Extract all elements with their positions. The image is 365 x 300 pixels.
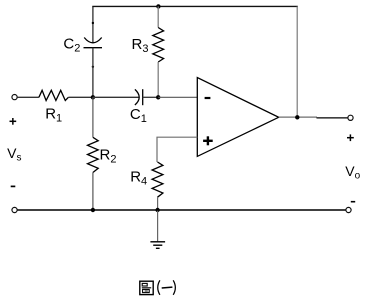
wire C2 bottom lead	[92, 48, 94, 98]
wire C2 top lead	[92, 6, 94, 42]
node junction top of R3	[156, 4, 160, 8]
wire op-amp noninverting input to R4	[157, 137, 197, 162]
node vertex mark on C2 top lead	[92, 22, 94, 24]
node R2 bottom junction dot	[91, 208, 95, 212]
label input minus polarity	[11, 185, 16, 187]
node ground junction dot	[155, 208, 159, 212]
wire bottom rail	[17, 209, 346, 211]
wire R3 top lead	[157, 6, 159, 27]
svg-text:R4: R4	[130, 169, 147, 188]
op-amp U1 minus sign	[205, 97, 211, 99]
svg-text:C2: C2	[63, 36, 80, 55]
node A junction dot	[91, 95, 95, 99]
terminal input minus	[12, 207, 17, 212]
wire node B to op-amp inverting input	[158, 96, 197, 98]
wire R2 top lead	[92, 97, 94, 137]
caption right parenthesis	[173, 280, 175, 295]
ground	[150, 242, 165, 249]
label output minus polarity	[351, 201, 355, 203]
svg-text:R1: R1	[45, 105, 62, 124]
resistor R3	[153, 28, 164, 63]
capacitor C1	[135, 89, 143, 105]
resistor R1	[39, 90, 69, 100]
terminal input plus	[12, 95, 17, 100]
label input plus polarity	[10, 118, 17, 125]
wire feedback right vertical	[296, 6, 298, 117]
caption left parenthesis	[158, 280, 160, 295]
wire R2 bottom lead	[92, 173, 94, 211]
wire C1 to node B	[143, 96, 159, 98]
svg-text:Vo: Vo	[345, 163, 360, 182]
svg-text:Vs: Vs	[7, 145, 21, 164]
svg-text:R3: R3	[132, 36, 149, 55]
wire op-amp output	[279, 116, 317, 118]
wire ground lead	[157, 210, 159, 241]
terminal output plus	[348, 115, 353, 120]
wire R4 bottom lead	[157, 197, 159, 210]
resistor R2	[88, 137, 99, 172]
op-amp U1 plus sign	[203, 136, 213, 145]
terminal output minus	[346, 207, 351, 212]
capacitor C2	[84, 38, 103, 48]
svg-text:R2: R2	[100, 147, 117, 166]
node output junction dot	[295, 115, 299, 119]
caption yi glyph bar	[162, 286, 173, 289]
node B junction dot	[156, 95, 160, 99]
wire R3 bottom lead	[157, 62, 159, 97]
resistor R4	[152, 162, 163, 197]
caption figure number glyph tu	[140, 281, 153, 294]
wire R1 to node A	[68, 96, 93, 98]
wire node A to C1	[93, 96, 139, 98]
node vertex mark on C2 bottom lead	[92, 66, 94, 68]
svg-text:C1: C1	[130, 106, 147, 125]
op-amp U1	[197, 78, 278, 157]
wire top feedback rail	[92, 5, 297, 7]
label output plus polarity	[347, 134, 354, 141]
wire input terminal to R1	[17, 96, 39, 98]
